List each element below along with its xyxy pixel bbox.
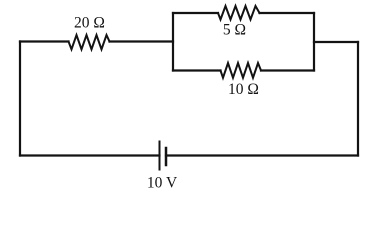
battery V1 short plate	[165, 148, 168, 165]
svg-text:10 V: 10 V	[147, 174, 178, 191]
wire left vertical	[19, 42, 21, 156]
svg-text:10 Ω: 10 Ω	[228, 81, 259, 98]
wire parallel box right vertical	[313, 13, 315, 71]
resistor R1 20 ohm zigzag	[69, 35, 110, 49]
wire top branch left	[173, 12, 218, 14]
wire bottom branch left	[173, 69, 221, 71]
svg-text:5 Ω: 5 Ω	[223, 22, 246, 39]
wire top branch right	[260, 12, 315, 14]
wire parallel box left vertical	[172, 13, 174, 71]
battery V1 long plate	[159, 142, 161, 170]
wire top-left from corner to resistor R1	[20, 40, 69, 42]
svg-text:20 Ω: 20 Ω	[74, 14, 105, 31]
wire bottom branch right	[261, 69, 314, 71]
wire bottom left to battery	[20, 154, 160, 156]
resistor R2 5 ohm zigzag	[218, 6, 260, 20]
wire right vertical	[357, 42, 359, 156]
wire bottom right from battery	[166, 154, 358, 156]
wire from R1 to parallel box left node	[110, 40, 174, 42]
wire middle right from box to outer loop	[314, 41, 358, 43]
resistor R3 10 ohm zigzag	[221, 63, 262, 78]
